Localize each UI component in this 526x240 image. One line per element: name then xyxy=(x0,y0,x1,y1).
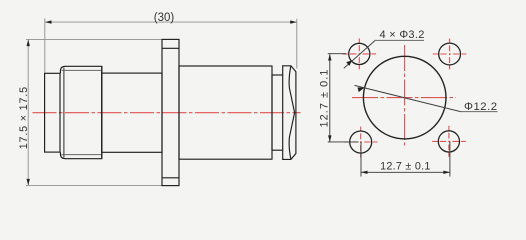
svg-text:17.5 × 17.5: 17.5 × 17.5 xyxy=(18,86,30,149)
svg-text:Φ12.2: Φ12.2 xyxy=(464,101,498,113)
svg-text:12.7 ± 0.1: 12.7 ± 0.1 xyxy=(380,161,430,173)
svg-text:4 × Φ3.2: 4 × Φ3.2 xyxy=(380,29,425,41)
svg-text:(30): (30) xyxy=(154,12,175,24)
svg-text:12.7 ± 0.1: 12.7 ± 0.1 xyxy=(318,69,330,128)
